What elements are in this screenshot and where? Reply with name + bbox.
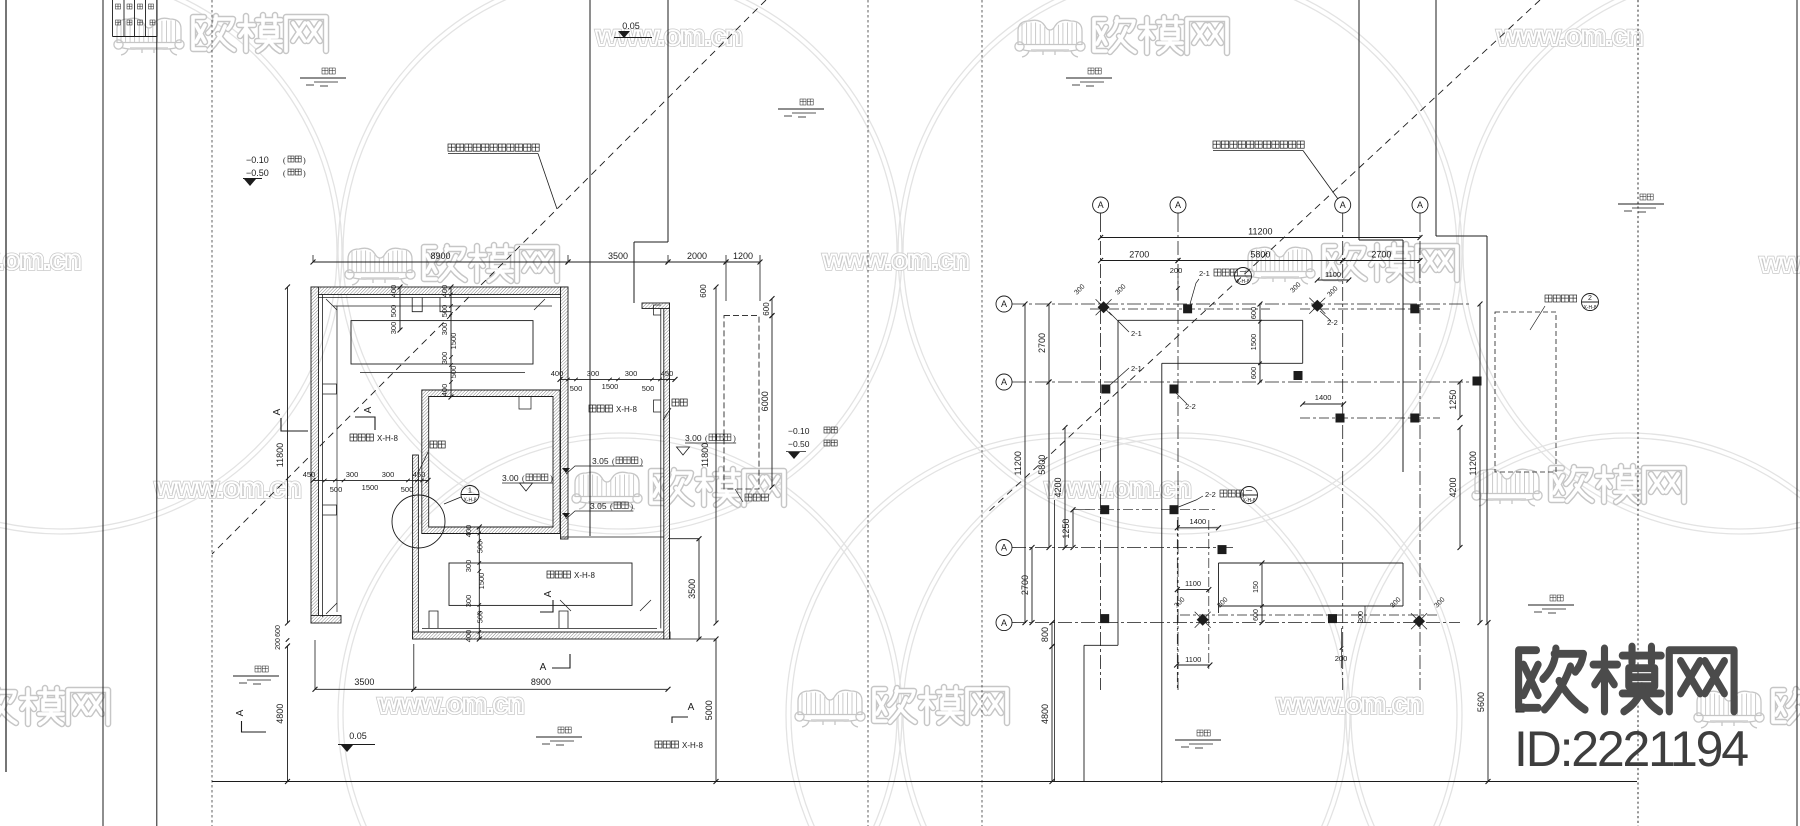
svg-text:500: 500 <box>440 305 449 318</box>
wall: second left band <box>413 455 419 639</box>
svg-text:400: 400 <box>440 384 449 397</box>
1400 dim upper <box>1303 403 1344 405</box>
top dims 11200 / 2700 5800 2700 <box>1101 237 1420 239</box>
wall: outer top band <box>311 287 568 295</box>
svg-text:2-1: 2-1 <box>1131 329 1142 338</box>
svg-text:600: 600 <box>699 284 708 298</box>
svg-text:): ) <box>630 502 633 511</box>
dims 1400/1100/1100/200 lower-left <box>1177 527 1218 529</box>
svg-text:A: A <box>1001 299 1007 309</box>
svg-text:0.05: 0.05 <box>349 731 367 741</box>
svg-text:200: 200 <box>1335 654 1348 663</box>
dashed diagonal right <box>986 0 1540 514</box>
svg-text:2-1: 2-1 <box>1199 269 1210 278</box>
svg-text:400: 400 <box>440 285 449 298</box>
svg-text:A: A <box>1175 200 1181 210</box>
svg-text:(: ( <box>283 156 286 165</box>
svg-text:300: 300 <box>1358 611 1365 623</box>
right small chain 150/600/300 (lower) <box>1261 563 1263 623</box>
svg-text:4200: 4200 <box>1053 477 1063 497</box>
svg-text:11800: 11800 <box>275 443 285 467</box>
svg-text:2-2: 2-2 <box>1327 318 1338 327</box>
svg-text:): ) <box>550 474 553 483</box>
big logo 欧模网 <box>1519 647 1734 712</box>
svg-text:(: ( <box>612 457 615 466</box>
row bubbles + grid rows <box>996 296 1012 312</box>
svg-text:1: 1 <box>468 488 472 495</box>
svg-text:450: 450 <box>303 470 316 479</box>
small tabs on bottom interior <box>429 611 438 628</box>
svg-text:X-H-8: X-H-8 <box>682 741 703 750</box>
svg-text:): ) <box>303 156 306 165</box>
svg-text:600: 600 <box>1249 367 1258 380</box>
right horizontal chain above <box>560 378 675 380</box>
svg-text:ID:2221194: ID:2221194 <box>1514 721 1748 777</box>
svg-text:5000: 5000 <box>704 700 714 720</box>
svg-text:−0.10: −0.10 <box>788 426 810 436</box>
svg-text:8900: 8900 <box>531 677 551 687</box>
pool interior tab <box>519 397 531 409</box>
svg-text:1250: 1250 <box>1448 390 1458 410</box>
svg-text:A: A <box>1098 200 1104 210</box>
leader: garage structure outline text left <box>448 144 455 151</box>
svg-text:A: A <box>272 408 283 415</box>
left wall tabs <box>323 384 337 394</box>
svg-text:一: 一 <box>1240 269 1247 276</box>
svg-text:): ) <box>733 434 736 443</box>
svg-text:1400: 1400 <box>1315 393 1332 402</box>
1100 dim top <box>1317 279 1349 281</box>
svg-text:A: A <box>543 590 554 597</box>
svg-text:300: 300 <box>464 560 473 573</box>
svg-text:X-H-8: X-H-8 <box>1236 279 1249 285</box>
svg-text:3500: 3500 <box>608 251 628 261</box>
svg-text:4200: 4200 <box>1448 477 1458 497</box>
svg-text:3500: 3500 <box>687 579 697 599</box>
grid bubbles top <box>1093 197 1109 213</box>
svg-text:2700: 2700 <box>1020 575 1030 595</box>
vertical dim chains top <box>399 287 401 330</box>
svg-text:(: ( <box>522 474 525 483</box>
svg-text:600: 600 <box>1253 609 1260 621</box>
left horizontal chain at pool level <box>313 479 428 481</box>
svg-text:1100: 1100 <box>1185 579 1201 588</box>
detail circle at pool left wall <box>392 495 445 548</box>
svg-text:www.om.cn: www.om.cn <box>1276 688 1423 719</box>
svg-text:11800: 11800 <box>700 443 710 467</box>
wall: bottom band <box>413 632 670 639</box>
top boundary steps right <box>1358 0 1360 240</box>
svg-text:3.00: 3.00 <box>502 473 519 483</box>
vertical grid lines <box>1100 218 1102 690</box>
svg-text:(: ( <box>283 169 286 178</box>
svg-text:−0.50: −0.50 <box>246 168 269 178</box>
svg-text:2: 2 <box>1588 295 1592 302</box>
svg-text:www.om.cn: www.om.cn <box>822 244 969 275</box>
small tabs on top interior <box>412 298 422 312</box>
svg-text:500: 500 <box>476 541 485 554</box>
water tank well dashed rect <box>1495 312 1556 472</box>
interior corner miters <box>326 299 337 310</box>
wall: outer right band <box>561 287 569 539</box>
svg-text:5600: 5600 <box>1476 692 1486 712</box>
svg-text:3.05: 3.05 <box>592 456 609 466</box>
svg-text:11200: 11200 <box>1248 227 1272 237</box>
svg-text:A: A <box>1340 200 1346 210</box>
top boundary step lines <box>589 0 591 536</box>
svg-text:X-H-8: X-H-8 <box>463 498 476 504</box>
svg-text:500: 500 <box>389 305 398 318</box>
3500 right vertical dim <box>698 539 700 639</box>
svg-text:1500: 1500 <box>449 333 458 350</box>
svg-text:2000: 2000 <box>687 251 707 261</box>
svg-text:www.om.cn: www.om.cn <box>1759 247 1800 278</box>
svg-text:(: ( <box>610 502 613 511</box>
svg-text:A: A <box>1001 543 1007 553</box>
svg-text:1500: 1500 <box>477 573 486 590</box>
svg-text:500: 500 <box>330 485 343 494</box>
svg-text:X-H-8: X-H-8 <box>377 434 398 443</box>
label water tank well <box>745 494 752 501</box>
lower-right rectangle lines <box>1219 562 1404 564</box>
svg-text:500: 500 <box>570 384 583 393</box>
svg-text:11200: 11200 <box>1013 451 1023 475</box>
internal outline <box>1118 319 1303 321</box>
left drawing top dimension chain 8900/3500/2000/1200 <box>313 261 568 263</box>
svg-text:www.om.cn: www.om.cn <box>1044 472 1191 503</box>
11800 right vertical dim <box>715 287 717 623</box>
svg-text:A: A <box>1001 618 1007 628</box>
600 dim right top <box>771 299 773 316</box>
svg-text:4800: 4800 <box>1040 704 1050 724</box>
svg-text:1400: 1400 <box>1190 517 1207 526</box>
interior offset lines upper square <box>319 297 561 299</box>
dashed diagonal (garage outline) left <box>212 0 766 554</box>
svg-text:−0.50: −0.50 <box>788 439 810 449</box>
svg-text:www.om.cn: www.om.cn <box>0 244 81 275</box>
svg-text:300: 300 <box>346 470 359 479</box>
svg-text:2700: 2700 <box>1371 250 1391 260</box>
svg-text:400: 400 <box>464 630 473 643</box>
svg-text:A: A <box>688 702 695 713</box>
right dim chains right-drawing <box>1459 382 1461 418</box>
svg-text:1500: 1500 <box>362 483 379 492</box>
svg-text:600: 600 <box>275 625 282 637</box>
svg-text:400: 400 <box>464 525 473 538</box>
svg-text:2700: 2700 <box>1129 250 1149 260</box>
svg-text:5800: 5800 <box>1250 250 1270 260</box>
svg-text:): ) <box>640 457 643 466</box>
channel link line right <box>561 536 664 538</box>
svg-text:www.om.cn: www.om.cn <box>377 688 524 719</box>
11800 left vertical dim <box>287 287 289 623</box>
center vertical dim chain below pool <box>478 527 480 639</box>
svg-text:800: 800 <box>1040 627 1050 642</box>
svg-text:300: 300 <box>389 322 398 335</box>
svg-text:200: 200 <box>275 638 282 650</box>
columns row 4 <box>1100 614 1109 623</box>
wall: outer left band <box>311 287 319 623</box>
svg-text:4800: 4800 <box>275 704 285 724</box>
svg-text:11200: 11200 <box>1468 451 1478 475</box>
5000 right vertical dim <box>715 639 717 782</box>
strip interior tabs <box>654 305 661 315</box>
svg-text:A: A <box>1417 200 1423 210</box>
svg-text:300: 300 <box>625 369 638 378</box>
svg-text:5800: 5800 <box>1037 455 1047 475</box>
bottom dims 3500/8900 <box>315 688 414 690</box>
columns row 1 <box>1098 301 1110 313</box>
wall: right strip <box>664 303 670 639</box>
label 水箅 near strip <box>672 399 679 406</box>
svg-text:0.05: 0.05 <box>622 21 640 31</box>
svg-text:一: 一 <box>1246 488 1253 495</box>
water tank well label <box>1545 295 1552 302</box>
svg-text:1250: 1250 <box>1061 519 1071 539</box>
svg-text:8900: 8900 <box>430 251 450 261</box>
columns mid <box>1101 385 1110 394</box>
svg-text:X-H-8: X-H-8 <box>616 405 637 414</box>
svg-text:500: 500 <box>476 611 485 624</box>
upper channel rectangle <box>351 321 533 364</box>
6000 dim right <box>771 316 773 487</box>
svg-text:1500: 1500 <box>1249 334 1258 351</box>
svg-text:200: 200 <box>1170 266 1183 275</box>
svg-text:): ) <box>303 169 306 178</box>
svg-text:2-1: 2-1 <box>1131 364 1142 373</box>
svg-text:X-H-8: X-H-8 <box>1242 498 1255 504</box>
wall: left band end cap <box>311 616 341 624</box>
watermark sofa/logo units <box>114 15 326 55</box>
labels 见建施 X-H-8 (4x) <box>350 434 357 441</box>
svg-text:450: 450 <box>661 369 674 378</box>
bottom interior line <box>422 627 657 629</box>
svg-text:300: 300 <box>382 470 395 479</box>
svg-text:1100: 1100 <box>1325 270 1341 279</box>
svg-text:300: 300 <box>464 595 473 608</box>
detail ref bubble 1/X-H-8 <box>461 486 479 504</box>
600/200 small dims left <box>286 638 290 642</box>
water symbols <box>322 68 328 74</box>
svg-text:1200: 1200 <box>733 251 753 261</box>
svg-text:600: 600 <box>762 302 771 316</box>
title table top-left <box>112 0 114 37</box>
sheet frame lines <box>5 0 7 772</box>
svg-text:3500: 3500 <box>354 677 374 687</box>
svg-text:A: A <box>1001 377 1007 387</box>
svg-text:300: 300 <box>440 323 449 336</box>
lower channel rectangle <box>449 563 632 605</box>
svg-text:(: ( <box>705 434 708 443</box>
svg-text:600: 600 <box>1249 307 1258 320</box>
svg-text:X-H-8: X-H-8 <box>1583 305 1596 311</box>
svg-text:X-H-8: X-H-8 <box>574 571 595 580</box>
pool ring wall <box>422 390 560 534</box>
short dashed joist lines <box>1090 308 1270 310</box>
right small chain 600 1500 600 (upper) <box>1259 304 1261 382</box>
wall: right strip top <box>642 303 670 309</box>
svg-text:1100: 1100 <box>1185 655 1201 664</box>
svg-text:−0.10: −0.10 <box>246 155 269 165</box>
svg-text:300: 300 <box>587 369 600 378</box>
svg-text:2-2: 2-2 <box>1205 490 1216 499</box>
right dashed rectangle (water tank well) <box>724 316 759 489</box>
svg-text:400: 400 <box>389 285 398 298</box>
svg-text:500: 500 <box>642 384 655 393</box>
svg-text:www.om.cn: www.om.cn <box>1496 20 1643 51</box>
svg-text:A: A <box>540 662 547 673</box>
svg-text:150: 150 <box>1253 581 1260 593</box>
svg-text:1500: 1500 <box>602 382 619 391</box>
leader: garage structure outline text right <box>1213 141 1220 148</box>
svg-text:6000: 6000 <box>760 391 770 411</box>
svg-text:A: A <box>363 406 374 413</box>
svg-text:400: 400 <box>551 369 564 378</box>
svg-text:A: A <box>235 709 246 716</box>
svg-text:2700: 2700 <box>1037 333 1047 353</box>
4800 left vertical dim <box>287 646 289 782</box>
svg-text:3.00: 3.00 <box>685 433 702 443</box>
svg-text:3.05: 3.05 <box>590 501 607 511</box>
svg-text:500: 500 <box>449 366 458 379</box>
label 水箅 near pool <box>430 441 437 448</box>
left dim chains right-drawing <box>1024 304 1026 623</box>
svg-text:500: 500 <box>401 485 414 494</box>
svg-text:300: 300 <box>440 352 449 365</box>
